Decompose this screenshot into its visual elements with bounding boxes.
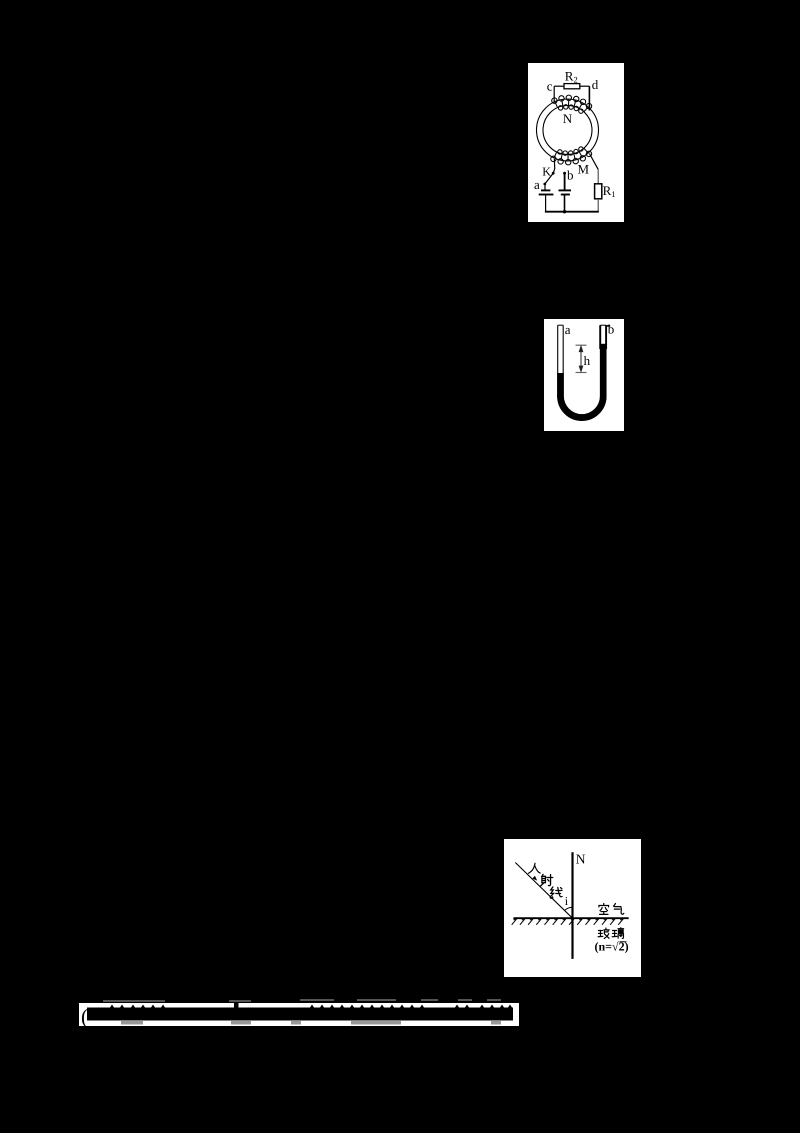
wire b down to battery 2 (564, 173, 566, 190)
mercury in right arm (600, 344, 607, 397)
normal line N (571, 852, 573, 959)
figure 2: U-tube manometer panel (544, 319, 624, 431)
svg-text:h: h (584, 353, 591, 368)
interface line (513, 917, 628, 919)
winding M (bottom coil) (551, 147, 592, 165)
svg-text:(n=√2): (n=√2) (595, 940, 629, 954)
label li (CJK drawn) (612, 928, 623, 939)
figure 1: transformer circuit panel (528, 63, 624, 222)
wire winding M left end down to switch K (553, 159, 555, 169)
node a dot (543, 183, 546, 186)
tube b top rim (601, 324, 607, 326)
wire battery 1 to bottom rail (545, 195, 547, 212)
battery 1 long bottom plate (539, 194, 554, 196)
resistor R1 (595, 184, 602, 199)
svg-text:K: K (542, 165, 551, 179)
svg-text:N: N (576, 852, 586, 867)
tube b thick right wall (605, 325, 607, 349)
wire d down to winding N right end (588, 86, 590, 110)
wire down to R1 top (597, 169, 599, 183)
junction dot on bottom rail (563, 210, 566, 213)
incident ray arrowhead (532, 876, 537, 881)
winding N (top coil) (552, 95, 592, 113)
h dimension double arrow (579, 346, 582, 371)
radical overline (620, 941, 627, 943)
U-tube inner glass wall (563, 325, 600, 415)
toroid core inner circle (543, 106, 592, 155)
battery 2 long top plate (559, 189, 572, 191)
label ru (CJK drawn) (528, 863, 540, 873)
svg-text:a: a (534, 177, 540, 192)
svg-text:i: i (565, 894, 569, 908)
figure 3: refraction diagram panel (504, 839, 641, 977)
h lower tick (576, 372, 587, 374)
glyph fragments below band (121, 1021, 501, 1025)
mercury in left arm (557, 373, 564, 397)
toroid core outer circle (537, 99, 599, 161)
faint text remnants above strip (103, 1000, 165, 1002)
switch K blade (545, 173, 553, 184)
bottom text strip panel (79, 1003, 519, 1026)
svg-text:N: N (563, 111, 573, 126)
tube b top tick (606, 325, 610, 327)
svg-text:R2: R2 (565, 69, 578, 85)
svg-text:b: b (608, 322, 615, 337)
wire c down to winding N left end (553, 86, 555, 102)
redacted text band (87, 1008, 513, 1021)
label kong (CJK drawn) (599, 903, 609, 914)
bottom rail wire (545, 211, 599, 213)
label qi (CJK drawn) (614, 903, 624, 914)
U-tube outer glass wall (558, 325, 606, 420)
label bo (CJK drawn) (598, 928, 609, 938)
battery 2 short bottom plate (561, 194, 570, 196)
switch K pivot dot (552, 172, 555, 175)
svg-text:(: ( (81, 1005, 88, 1027)
glyph tips above band (110, 997, 512, 1009)
surface hatching (512, 920, 623, 925)
resistor R2 (564, 84, 580, 89)
node b terminal dot (563, 172, 566, 175)
svg-text:d: d (592, 77, 599, 92)
svg-text:R1: R1 (603, 183, 616, 199)
mercury in bend (557, 396, 606, 421)
tube a top rim (558, 324, 564, 326)
wire c to R2 (554, 85, 564, 87)
svg-text:a: a (565, 322, 571, 337)
incident ray (515, 863, 572, 919)
svg-text:c: c (547, 78, 553, 93)
wire R1 to bottom rail (597, 199, 599, 212)
label xian (CJK drawn) (550, 887, 562, 899)
wire winding M right end diagonal to R1 (589, 154, 598, 170)
wire battery 2 to bottom rail (564, 195, 566, 212)
wire R2 to d (580, 85, 590, 87)
wire a to battery 1 (544, 184, 546, 190)
h upper tick (576, 344, 587, 346)
tube b thick left wall (599, 325, 601, 349)
angle i arc (565, 907, 573, 910)
label she (CJK drawn) (541, 874, 553, 886)
svg-text:M: M (578, 161, 590, 176)
svg-text:b: b (567, 168, 574, 183)
battery 1 short top plate (541, 189, 550, 191)
